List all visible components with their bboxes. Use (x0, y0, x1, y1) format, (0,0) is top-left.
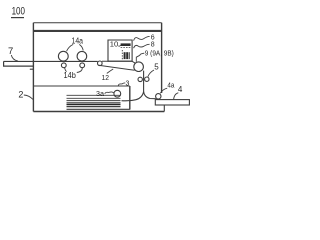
housing left wall (32, 23, 34, 112)
svg-text:3a: 3a (96, 91, 104, 98)
paper path stem (143, 71, 145, 92)
cassette top edge (33, 85, 129, 87)
pinch roller 14b (right pair, bottom) (80, 63, 85, 68)
paper stack line 3 (67, 99, 121, 101)
svg-text:4a: 4a (167, 83, 174, 90)
tilde leader 3 (118, 83, 125, 86)
housing bottom (33, 111, 164, 113)
belt corner to drum (132, 61, 135, 63)
registration roller 5 (left) (138, 77, 142, 81)
leader 14b left (65, 68, 67, 72)
developer bar 8 (right) (126, 52, 128, 59)
leader 4a (160, 88, 167, 93)
svg-text:7: 7 (8, 46, 13, 57)
process unit box 10 (108, 40, 132, 61)
tilde leader 9 (140, 53, 145, 55)
developer thin bar (128, 52, 131, 59)
svg-text:12: 12 (102, 73, 110, 82)
leader 12 (107, 69, 113, 73)
svg-text:4: 4 (178, 85, 183, 94)
svg-text:100: 100 (12, 6, 25, 18)
paper stack line 1 (67, 94, 121, 96)
manual feed tray 7 (4, 61, 34, 66)
cassette floor (67, 108, 130, 110)
tilde leader 6 (134, 36, 150, 40)
output tray 4 (155, 100, 189, 105)
tray hinge stub (30, 68, 34, 70)
leader 10 (118, 44, 120, 47)
developer bar 8 (left) (124, 52, 126, 59)
housing bottom-right step (163, 105, 165, 112)
paper stack base band (67, 103, 121, 105)
feed roller 14a (left pair, top) (58, 51, 68, 61)
feed path line (4, 60, 98, 62)
svg-text:10: 10 (110, 41, 119, 48)
svg-text:14b: 14b (64, 71, 77, 80)
leader 4 (174, 93, 179, 100)
svg-text:5: 5 (154, 63, 159, 72)
cassette right edge (129, 86, 131, 110)
paper stack line 4 (67, 101, 121, 103)
exposure bar 6 (121, 43, 131, 46)
developer dashed vertical (121, 50, 123, 59)
housing top thin line (33, 22, 161, 24)
paper path right branch (144, 92, 156, 99)
leader 14b right (77, 68, 83, 73)
leader 14a right (79, 44, 83, 50)
registration roller 5 (right) (145, 77, 149, 81)
tilde leader 8 (134, 44, 150, 48)
housing right wall (161, 23, 163, 93)
paper path left branch (122, 92, 144, 101)
belt upper line (102, 60, 132, 62)
leader 14a left (67, 44, 74, 51)
paper stack line 2 (67, 97, 121, 99)
svg-text:9 (9A, 9B): 9 (9A, 9B) (145, 49, 174, 58)
svg-text:3: 3 (126, 80, 130, 87)
beam dashed line (121, 47, 132, 49)
svg-text:2: 2 (18, 89, 23, 99)
svg-text:8: 8 (151, 42, 155, 49)
tilde leader 3a (105, 92, 114, 94)
leader of 7 (11, 55, 17, 61)
leader 2 (24, 95, 33, 100)
belt lower line (99, 65, 135, 70)
housing top cover thick line (33, 30, 161, 32)
leader 5 (148, 70, 154, 77)
belt roller 12 (98, 61, 103, 66)
feed roller 14a (right pair, top) (77, 51, 87, 61)
pickup roller 3a (114, 90, 121, 97)
leader 9 tail (136, 55, 140, 62)
svg-text:14a: 14a (72, 37, 84, 46)
svg-text:6: 6 (151, 34, 155, 41)
paper stack lower line (67, 106, 121, 108)
pinch roller 14b (left pair, bottom) (61, 63, 66, 68)
underline of 100 (11, 17, 24, 19)
photosensitive drum 9 (134, 62, 144, 72)
discharge roller 4a (156, 94, 161, 99)
